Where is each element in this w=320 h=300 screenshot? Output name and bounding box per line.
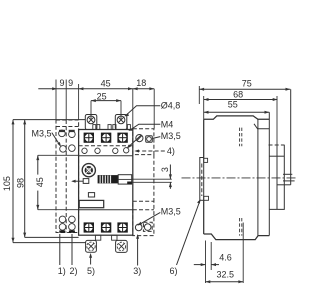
svg-text:68: 68	[233, 89, 243, 99]
right accessory bottom dashed box	[133, 201, 154, 235]
back clip vertical	[283, 145, 285, 185]
top mounting tab right	[115, 115, 127, 130]
main terminal T3 (bottom)	[117, 222, 127, 232]
back vertical 68 reference	[276, 146, 278, 209]
svg-text:M4: M4	[161, 119, 174, 129]
svg-text:32.5: 32.5	[217, 270, 235, 280]
label Ø4,8 with leader	[124, 101, 180, 117]
top extension line (reference for 105/98)	[13, 119, 85, 121]
svg-text:M3,5: M3,5	[161, 207, 181, 217]
side view back step	[269, 185, 284, 210]
svg-text:45: 45	[101, 78, 111, 88]
extension lines 9 9	[56, 80, 79, 121]
dashed line under top terminals	[79, 145, 133, 147]
main body outline	[79, 130, 133, 236]
arrowhead 18 dim right	[149, 87, 154, 90]
dim 68	[204, 89, 278, 146]
svg-text:3: 3	[160, 167, 170, 172]
center line dash-dot	[182, 177, 296, 179]
bottom wire-entry stubs	[95, 235, 117, 240]
label 4) with dashed leader	[134, 146, 175, 156]
label M3,5 bottom with leader	[137, 207, 181, 226]
handle extension lines for dim 3	[132, 179, 172, 182]
callout leader 1)	[59, 234, 61, 265]
back clip dashed hidden line	[269, 144, 285, 146]
main terminal L1 (top)	[84, 133, 94, 143]
right accessory dashed side edge (middle)	[153, 155, 155, 202]
svg-text:6): 6)	[169, 266, 177, 276]
DIN rail cross section verticals	[290, 89, 292, 185]
callout leader 2)	[71, 234, 73, 265]
svg-text:55: 55	[228, 99, 238, 109]
main terminal T1 (bottom)	[84, 222, 94, 232]
main terminal L2 (top)	[101, 133, 111, 143]
svg-text:45: 45	[35, 177, 45, 187]
right accessory top dashed box	[133, 129, 154, 155]
side view left edge upper	[203, 119, 205, 157]
svg-text:M3,5: M3,5	[161, 131, 181, 141]
svg-text:18: 18	[136, 78, 146, 88]
label field rectangle	[79, 200, 104, 207]
bottom mounting tab right	[116, 240, 128, 252]
small flag beside handle	[83, 179, 89, 184]
toggle handle black section	[112, 175, 119, 183]
pointer line at handle height	[71, 180, 83, 183]
body separation line below terminal block	[79, 155, 133, 157]
side view front edge vertical	[268, 112, 270, 235]
svg-text:M3,5: M3,5	[32, 128, 52, 138]
right accessory top terminal	[146, 136, 153, 143]
dim 32.5	[206, 223, 244, 284]
rail tick lower	[283, 180, 295, 182]
rail tick upper	[283, 173, 292, 175]
top wire-entry stubs	[93, 125, 131, 130]
dim 75	[199, 79, 290, 104]
toggle handle white end section	[118, 175, 132, 184]
right accessory bottom terminal circles	[135, 222, 152, 231]
side view top profile	[204, 116, 270, 119]
svg-text:9: 9	[59, 78, 64, 88]
back clip solid line	[269, 155, 284, 157]
dim 45 vertical	[35, 155, 79, 209]
dim 25	[91, 91, 121, 119]
aux terminal circles row	[82, 148, 129, 154]
callout leader 5)	[89, 253, 92, 265]
main terminal T2 (bottom)	[101, 222, 111, 232]
svg-text:25: 25	[97, 91, 107, 101]
label M4 with leader	[128, 119, 173, 130]
svg-text:5): 5)	[87, 266, 95, 276]
dim line across top	[56, 88, 154, 90]
DIN rail clip left	[200, 158, 209, 201]
extension line right of 45	[132, 89, 134, 130]
top mounting tab left	[85, 115, 97, 130]
funnel terminal dashes lower	[240, 218, 242, 236]
svg-text:105: 105	[2, 176, 12, 191]
dim 9 9 leader arrow	[38, 87, 57, 90]
dimension 3 (handle)	[160, 165, 172, 189]
bottom reference line for 105	[13, 242, 86, 244]
arrowheads 45 dim	[79, 87, 84, 90]
svg-text:Ø4,8: Ø4,8	[161, 101, 181, 111]
toggle handle striped section	[98, 175, 112, 183]
callout leader 3)	[136, 234, 139, 266]
side view left edge lower	[203, 200, 205, 234]
body line above bottom terminals	[79, 209, 133, 211]
extension line right of 18	[153, 89, 155, 129]
rail block bottom	[277, 184, 291, 186]
dim 105 vertical	[2, 120, 14, 243]
label M3,5 top with leaders	[127, 131, 181, 149]
right accessory top screw	[136, 135, 143, 142]
arrowhead 45 dim right	[128, 87, 133, 90]
adjustment knob	[82, 164, 95, 177]
reset button small rect	[88, 193, 94, 197]
left accessory top terminal circles	[59, 130, 76, 152]
svg-text:1): 1)	[58, 266, 66, 276]
left accessory dashed outline	[56, 120, 79, 233]
arrowheads 18 dim	[133, 87, 138, 90]
dim 98 vertical	[15, 120, 26, 238]
callout leader 6)	[177, 199, 201, 265]
svg-text:9: 9	[68, 78, 73, 88]
side view inner step top right	[254, 124, 269, 129]
svg-text:75: 75	[242, 79, 252, 89]
dim 4.6	[194, 241, 232, 284]
svg-text:2): 2)	[69, 266, 77, 276]
svg-text:4.6: 4.6	[219, 253, 232, 263]
side view bottom profile	[204, 234, 270, 240]
label M3,5 left with leader	[32, 128, 62, 146]
main terminal L3 (top)	[117, 133, 127, 143]
svg-text:4): 4)	[167, 146, 175, 156]
bottom mounting tab left	[86, 240, 97, 252]
funnel terminal dashes upper	[240, 128, 242, 147]
dim 55	[204, 99, 270, 113]
svg-text:3): 3)	[133, 266, 141, 276]
bottom reference line for 98	[25, 236, 79, 238]
side view internal vertical (front/back boundary)	[257, 119, 259, 235]
svg-text:98: 98	[15, 178, 25, 188]
left accessory bottom terminal circles	[59, 216, 75, 233]
